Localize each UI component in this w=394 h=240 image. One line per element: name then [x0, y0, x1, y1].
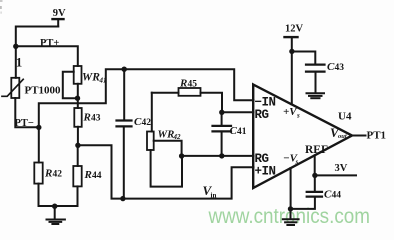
C41 bottom plate [213, 130, 232, 132]
node -Vs junction dot [288, 206, 293, 211]
capacitor C44 bottom stem and wire to -Vs [291, 198, 315, 209]
node WR42 wiper junction dot [179, 153, 184, 158]
ground bar 1 [47, 219, 65, 221]
svg-text:12V: 12V [285, 24, 304, 35]
svg-text:RG: RG [255, 108, 269, 122]
ground bar 2 (C43) [309, 95, 322, 97]
node C41 bottom junction dot [219, 153, 224, 158]
svg-text:R: R [44, 168, 52, 180]
wire REF stem [314, 155, 316, 175]
node WR41 bottom junction dot [75, 96, 80, 101]
node PT+ junction dot [13, 44, 18, 49]
C43 top plate [306, 63, 325, 65]
svg-text:43: 43 [335, 63, 345, 73]
svg-text:41: 41 [237, 127, 247, 137]
svg-text:44: 44 [92, 171, 102, 181]
wire R42 bottom stem [38, 184, 40, 206]
wire PT+ rail [16, 46, 78, 66]
node C41 top junction dot [219, 110, 224, 115]
svg-text:in: in [211, 192, 217, 200]
C42 bottom plate [117, 125, 132, 127]
wire 9V rail to left [16, 27, 58, 47]
resistor PT1000 body [11, 78, 19, 98]
resistor R43 body [74, 108, 81, 127]
ground bar 3 (C44) [287, 224, 294, 226]
wire R44 bottom stem [77, 186, 79, 206]
WR41 wiper wire [63, 72, 78, 99]
capacitor C42 bottom stem [123, 127, 125, 198]
9V supply bar [53, 18, 64, 20]
12V stem [291, 38, 293, 52]
C44 bottom plate [307, 196, 322, 198]
node C42 top junction dot [122, 67, 127, 72]
node R43/R44 junction dot [75, 143, 80, 148]
svg-text:3V: 3V [335, 163, 348, 174]
svg-text:s: s [295, 158, 299, 166]
svg-text:41: 41 [99, 77, 107, 85]
svg-text:44: 44 [332, 191, 342, 201]
C42 top plate [117, 119, 132, 121]
svg-text:WR: WR [82, 72, 100, 84]
svg-text:+V: +V [283, 106, 298, 118]
capacitor C43 bottom stem [315, 73, 317, 93]
wire PT- down to R42 [38, 127, 40, 162]
WR42 wiper wire [154, 141, 182, 156]
svg-text:out: out [338, 133, 347, 140]
wire R43/R44 node to Vin rail [78, 145, 254, 198]
scan speck left edge lower [1, 12, 2, 14]
svg-text:PT1: PT1 [367, 130, 387, 142]
resistor R42 body [34, 163, 42, 184]
svg-text:45: 45 [188, 80, 198, 90]
svg-text:REF: REF [305, 144, 328, 156]
wire RG bottom to amp [182, 155, 254, 157]
ground symbol stem (bridge ground) [54, 206, 56, 219]
svg-text:42: 42 [53, 170, 63, 180]
node C42 bottom junction dot [120, 196, 125, 201]
wire PT1000 bottom to PT- [15, 98, 39, 127]
resistor R44 body [73, 166, 81, 186]
op-amp U4 triangle body [253, 85, 352, 189]
capacitor C41 top stem [221, 112, 223, 125]
ground bar 3 [52, 223, 58, 225]
9V stem wire [57, 20, 59, 27]
node 12V junction dot [289, 49, 294, 54]
scan speck top-left [0, 0, 3, 2]
svg-text:42: 42 [142, 118, 152, 128]
node PT- junction dot [36, 125, 41, 130]
svg-text:43: 43 [91, 114, 101, 124]
wire WR42 bottom loop [151, 150, 182, 187]
svg-text:R: R [83, 112, 91, 124]
svg-text:R: R [179, 78, 187, 90]
capacitor C41 bottom stem [221, 132, 223, 156]
node ground rail junction dot [52, 204, 57, 209]
wire R45 left branch down to WR42 [151, 93, 153, 132]
wire PT- up and right (jog to -IN) [39, 69, 254, 127]
svg-text:PT+: PT+ [40, 38, 59, 49]
wire -Vs stem [290, 168, 292, 209]
svg-text:1: 1 [16, 55, 23, 70]
wire +Vs stem [291, 52, 293, 105]
ground bar 1 (C43) [307, 92, 325, 94]
svg-text:+IN: +IN [255, 164, 276, 178]
ground bar 2 [50, 221, 62, 223]
wire R44 top stem [77, 145, 79, 166]
svg-text:WR: WR [158, 129, 175, 141]
wire 12V to C43 [292, 52, 315, 64]
svg-text:s: s [296, 112, 300, 120]
svg-text:U4: U4 [338, 111, 352, 123]
C44 top plate [307, 191, 322, 193]
12V supply bar [285, 36, 298, 38]
wire R45 left lead [152, 92, 179, 94]
resistor R45 body [179, 88, 201, 96]
PT1000 thermistor diagonal stroke [2, 79, 23, 96]
ground bar 3 (C43) [311, 97, 319, 99]
C43 bottom plate [306, 70, 325, 72]
wire REF to 3V [315, 174, 356, 176]
wire RG top to amp [222, 111, 254, 113]
wire PT+ to PT1000 top [15, 46, 17, 78]
potentiometer WR42 body [147, 132, 154, 151]
ground bar 1 (C44) [283, 218, 299, 220]
svg-text:PT−: PT− [15, 118, 34, 129]
wire R43 bottom to node [77, 127, 79, 146]
ground symbol stem (C44) [290, 209, 292, 219]
capacitor C42 top stem [123, 69, 125, 119]
wire output to PT1 [352, 135, 366, 137]
wire R45 right lead down to RG [201, 93, 223, 113]
wire ground rail R42-R44 [39, 205, 77, 207]
svg-text:PT1000: PT1000 [25, 85, 62, 97]
node REF junction dot [312, 173, 317, 178]
svg-text:42: 42 [173, 133, 182, 141]
capacitor C44 top stem [314, 175, 316, 191]
C41 top plate [213, 125, 232, 127]
ground bar 2 (C44) [285, 221, 296, 223]
potentiometer WR41 body [74, 66, 82, 84]
wire WR41 bottom to R43 top [77, 84, 79, 108]
svg-text:9V: 9V [53, 8, 66, 19]
scan speck left edge [0, 6, 2, 9]
svg-text:R: R [84, 169, 92, 181]
